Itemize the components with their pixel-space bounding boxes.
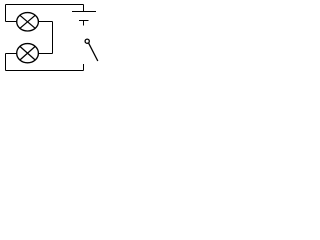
wire lamp L2 right stub <box>38 53 52 55</box>
wire top horizontal <box>6 4 84 6</box>
lamp L2 cross stroke 1 <box>20 46 35 60</box>
wire right rail <box>52 22 54 54</box>
wire battery top lead <box>83 5 85 12</box>
wire battery bottom lead <box>83 21 85 26</box>
battery B1 short plate <box>79 20 89 22</box>
lamp L2 cross stroke 2 <box>20 46 35 60</box>
battery B1 long plate <box>72 11 96 13</box>
wire lamp L2 left stub <box>6 53 17 55</box>
wire lamp L1 left stub <box>6 21 17 23</box>
switch S1 lever (open) <box>89 43 98 61</box>
wire bottom horizontal <box>6 70 84 72</box>
wire left rail upper <box>5 5 7 22</box>
switch S1 pivot contact <box>85 39 89 43</box>
lamp L1 cross stroke 2 <box>20 15 35 28</box>
lamp L2 body <box>17 44 39 63</box>
wire lamp L1 right stub <box>38 21 52 23</box>
wire switch bottom riser <box>83 64 85 71</box>
lamp L1 body <box>17 13 39 31</box>
lamp L1 cross stroke 1 <box>20 15 35 28</box>
wire left rail lower <box>5 54 7 71</box>
